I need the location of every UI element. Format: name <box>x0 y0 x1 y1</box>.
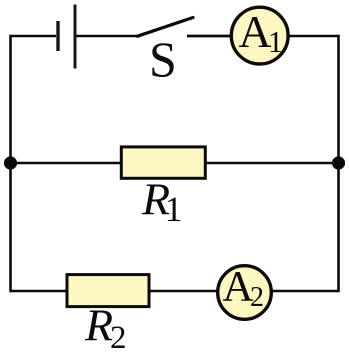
resistor R2 <box>67 275 149 353</box>
svg-text:A: A <box>238 6 271 57</box>
wire A2 to bottom-right corner <box>271 290 339 293</box>
ammeter A2 <box>218 264 272 320</box>
node A (left junction) <box>4 156 17 169</box>
svg-text:S: S <box>149 31 177 87</box>
wire middle-left <box>11 162 123 165</box>
wire middle-right <box>205 162 339 165</box>
wire bottom-left horizontal <box>11 290 69 293</box>
svg-text:R: R <box>84 300 113 351</box>
switch S <box>138 18 232 88</box>
svg-text:2: 2 <box>250 282 264 313</box>
wire A1 to top-right corner <box>288 35 339 38</box>
svg-text:1: 1 <box>165 189 183 229</box>
node B (right junction) <box>332 156 345 169</box>
svg-text:2: 2 <box>110 320 127 353</box>
wire battery to switch <box>77 35 139 38</box>
ammeter A1 <box>231 6 288 64</box>
wire left vertical <box>9 35 12 293</box>
wire top-left horizontal <box>11 35 57 38</box>
svg-text:A: A <box>223 264 254 311</box>
resistor R1 <box>121 147 205 229</box>
wire right vertical <box>337 35 340 293</box>
battery <box>58 5 75 69</box>
svg-text:1: 1 <box>268 24 284 59</box>
wire R2 to A2 <box>149 290 218 293</box>
